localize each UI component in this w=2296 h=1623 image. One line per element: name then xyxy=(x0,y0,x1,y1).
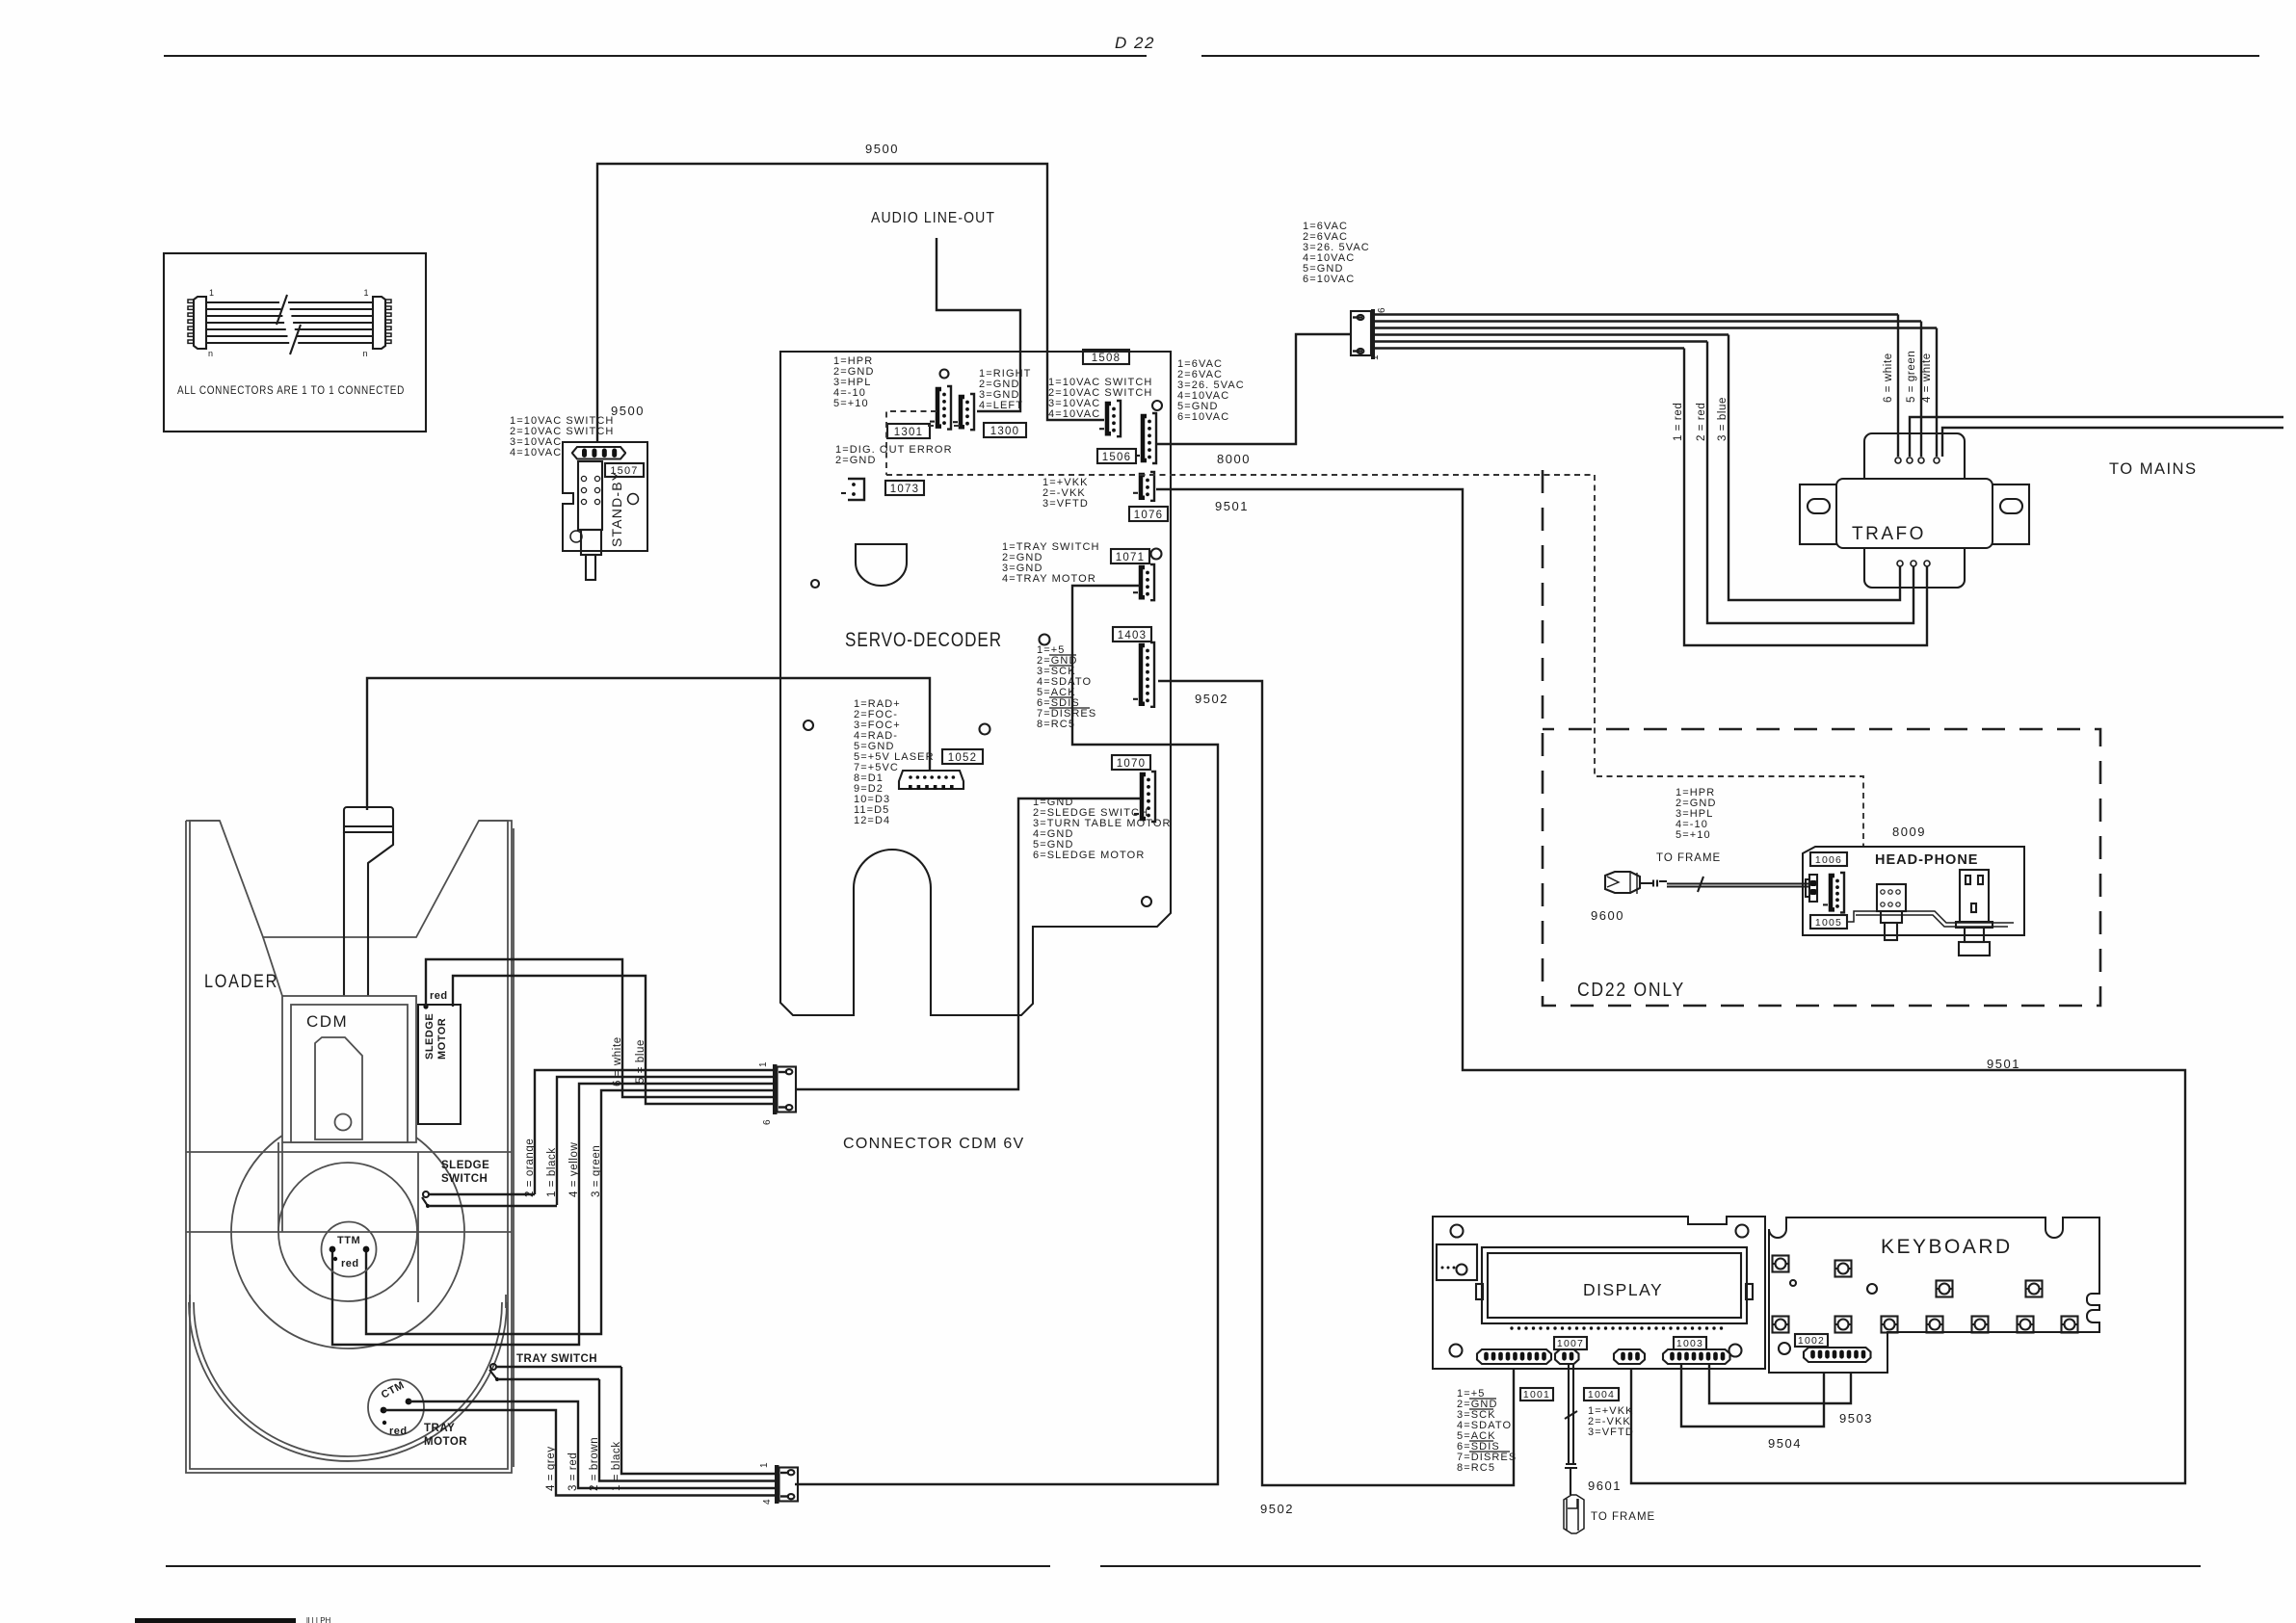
svg-text:9501: 9501 xyxy=(1215,499,1249,513)
wire orange xyxy=(535,1070,775,1194)
svg-text:1: 1 xyxy=(758,1061,769,1067)
trafo mount tab right xyxy=(1989,484,2029,544)
swing circles xyxy=(231,1115,464,1348)
svg-text:9600: 9600 xyxy=(1591,908,1624,923)
wire 9500 (stand-by to servo) xyxy=(597,142,1104,447)
board hole H xyxy=(1142,897,1151,906)
connector 1073 xyxy=(841,479,864,500)
TTM motor xyxy=(322,1222,377,1277)
keyboard buttons row2 xyxy=(1773,1317,2078,1333)
svg-text:TO MAINS: TO MAINS xyxy=(2109,460,2197,478)
sledge switch xyxy=(422,1160,557,1208)
connector 1052 xyxy=(899,771,963,790)
svg-text:KEYBOARD: KEYBOARD xyxy=(1881,1236,2013,1258)
label LOADER xyxy=(204,972,278,992)
board hole E xyxy=(1040,635,1050,645)
svg-text:2 = brown: 2 = brown xyxy=(589,1437,600,1491)
board hole C xyxy=(1151,549,1162,560)
svg-text:9502: 9502 xyxy=(1260,1502,1294,1516)
pin labels 1300 xyxy=(979,368,1031,411)
label 1007 xyxy=(1554,1337,1587,1349)
board HEAD-PHONE xyxy=(1803,847,2024,935)
svg-text:8=RC5: 8=RC5 xyxy=(1037,719,1075,730)
wire tray black xyxy=(621,1367,775,1474)
board hole D xyxy=(811,580,819,588)
svg-text:1 = red: 1 = red xyxy=(1673,403,1684,441)
wire 2 red xyxy=(1696,342,1913,624)
board hole F xyxy=(804,720,813,730)
CTM motor xyxy=(368,1379,424,1437)
display window xyxy=(1476,1247,1753,1323)
svg-text:4=10VAC: 4=10VAC xyxy=(1048,408,1100,420)
wire 1052 flat cable xyxy=(367,678,930,810)
svg-text:3=VFTD: 3=VFTD xyxy=(1042,498,1089,510)
svg-text:1301: 1301 xyxy=(894,427,923,438)
wire black (sledge) xyxy=(557,1077,775,1205)
wires to mains xyxy=(1910,417,2283,478)
svg-text:red: red xyxy=(389,1426,408,1437)
connector trafo 6p xyxy=(1351,307,1387,360)
bottom rule right xyxy=(1100,1565,2201,1567)
pin labels 1004 xyxy=(1588,1405,1634,1438)
svg-text:3=VFTD: 3=VFTD xyxy=(1588,1427,1634,1438)
svg-text:TO FRAME: TO FRAME xyxy=(1656,852,1721,864)
label 2 brown xyxy=(589,1437,600,1491)
svg-text:9500: 9500 xyxy=(865,142,899,156)
svg-text:1004: 1004 xyxy=(1588,1389,1615,1400)
label 1071 xyxy=(1111,549,1149,563)
svg-text:1508: 1508 xyxy=(1092,353,1121,364)
label SERVO-DECODER xyxy=(845,628,1002,651)
note text xyxy=(177,385,405,397)
svg-text:LOADER: LOADER xyxy=(204,972,278,992)
connector 1003 8p xyxy=(1663,1349,1730,1364)
svg-text:CONNECTOR CDM 6V: CONNECTOR CDM 6V xyxy=(843,1136,1025,1152)
wire ctm grey xyxy=(383,1410,775,1496)
svg-text:9504: 9504 xyxy=(1768,1436,1802,1451)
label 1004 xyxy=(1584,1388,1619,1400)
sledge motor xyxy=(418,1005,461,1124)
pin labels 1073 xyxy=(835,444,953,466)
svg-text:1 = black: 1 = black xyxy=(611,1441,622,1491)
wire ctm red xyxy=(409,1401,775,1488)
wire 1506 to trafo connector xyxy=(1157,334,1351,444)
board hole B xyxy=(1152,401,1162,410)
connector 1070 xyxy=(1134,772,1155,822)
svg-text:red: red xyxy=(341,1258,359,1270)
display corner box xyxy=(1437,1244,1477,1280)
wire 9601 ground xyxy=(1564,1364,1655,1533)
label 3 red xyxy=(567,1453,579,1491)
loader outline xyxy=(186,821,514,1473)
label 1301 xyxy=(887,424,930,438)
pin labels 1070 xyxy=(1033,797,1172,861)
svg-text:5=+10: 5=+10 xyxy=(1676,829,1711,841)
wire 6 white xyxy=(1883,315,1898,458)
svg-text:8009: 8009 xyxy=(1892,825,1926,839)
connector CDM 6V xyxy=(758,1061,796,1125)
label 1052 xyxy=(942,749,983,764)
connector 1506 xyxy=(1135,413,1156,463)
svg-text:1: 1 xyxy=(363,288,369,298)
wire tray brown xyxy=(599,1379,775,1481)
CDM block xyxy=(282,996,416,1142)
label 1507 xyxy=(605,463,644,477)
svg-text:1070: 1070 xyxy=(1117,758,1146,770)
wire CDM6V to 1070 xyxy=(796,798,1141,1089)
connector 1071 xyxy=(1133,564,1154,600)
keyboard holes xyxy=(1779,1280,1877,1354)
bottom rule left xyxy=(166,1565,1050,1567)
ribbon cable wires xyxy=(206,295,373,354)
wire audio line-out xyxy=(937,238,1020,411)
svg-text:1506: 1506 xyxy=(1102,452,1131,463)
label 1403 xyxy=(1113,627,1151,641)
svg-text:9500: 9500 xyxy=(611,404,645,418)
label 1001 xyxy=(1520,1388,1553,1400)
svg-text:1: 1 xyxy=(759,1462,770,1468)
svg-text:2 = red: 2 = red xyxy=(1696,403,1707,441)
svg-text:9601: 9601 xyxy=(1588,1479,1622,1493)
top rule right xyxy=(1201,55,2259,57)
svg-text:D 22: D 22 xyxy=(1115,34,1155,52)
svg-text:SLEDGE: SLEDGE xyxy=(441,1160,489,1171)
svg-text:4: 4 xyxy=(762,1499,773,1505)
svg-text:CD22 ONLY: CD22 ONLY xyxy=(1577,980,1685,1001)
display holes xyxy=(1450,1225,1749,1357)
dashed shield 1301/1300 xyxy=(886,411,960,475)
wire 8000 dashed xyxy=(886,452,1863,882)
svg-text:1052: 1052 xyxy=(948,752,977,764)
label 1006 xyxy=(1810,852,1847,866)
svg-text:MOTOR: MOTOR xyxy=(436,1018,448,1060)
svg-text:6: 6 xyxy=(1377,307,1387,313)
label 1 black (tray) xyxy=(611,1441,622,1491)
svg-text:9503: 9503 xyxy=(1839,1411,1873,1426)
svg-text:AUDIO LINE-OUT: AUDIO LINE-OUT xyxy=(871,210,995,226)
frame lug 9600 xyxy=(1591,872,1667,923)
clamp and stem xyxy=(263,807,393,1040)
svg-text:3 = red: 3 = red xyxy=(567,1453,579,1491)
wire 4 white xyxy=(1921,328,1937,458)
svg-text:HEAD-PHONE: HEAD-PHONE xyxy=(1875,852,1978,868)
svg-text:1076: 1076 xyxy=(1134,510,1163,521)
connector 1001 9p xyxy=(1477,1349,1551,1364)
svg-text:1007: 1007 xyxy=(1557,1338,1584,1349)
trafo mount tab left xyxy=(1800,484,1840,544)
connector 1403 xyxy=(1133,642,1154,707)
tray switch xyxy=(489,1353,621,1381)
svg-text:TRAY SWITCH: TRAY SWITCH xyxy=(516,1353,597,1365)
svg-text:SERVO-DECODER: SERVO-DECODER xyxy=(845,628,1002,651)
box CD22 ONLY xyxy=(1543,470,2100,1006)
connector 1300 xyxy=(953,394,974,430)
svg-text:4=LEFT: 4=LEFT xyxy=(979,400,1023,411)
label 1005 xyxy=(1810,915,1847,929)
label 4 grey xyxy=(545,1446,557,1491)
board KEYBOARD xyxy=(1769,1217,2099,1373)
connector 1507 xyxy=(572,447,625,459)
svg-text:6: 6 xyxy=(762,1119,773,1125)
svg-text:1073: 1073 xyxy=(890,484,919,495)
svg-text:STAND-BY: STAND-BY xyxy=(609,471,624,547)
svg-text:1: 1 xyxy=(209,288,215,298)
ribbon connector left xyxy=(188,288,215,358)
keyboard edge step xyxy=(0,0,1,1)
jack contact xyxy=(1806,875,1817,902)
svg-text:4 = yellow: 4 = yellow xyxy=(568,1141,580,1197)
svg-text:1001: 1001 xyxy=(1523,1389,1550,1400)
label 1003 xyxy=(1674,1337,1706,1349)
svg-text:TRAY: TRAY xyxy=(424,1423,455,1434)
label STAND-BY xyxy=(609,471,624,547)
svg-text:TRAFO: TRAFO xyxy=(1852,524,1926,544)
wire yellow xyxy=(332,1084,775,1345)
trafo core xyxy=(1864,433,1965,588)
wire 9501 xyxy=(1156,489,2185,1483)
pin labels 6VAC list left xyxy=(1177,358,1245,423)
svg-text:2=GND: 2=GND xyxy=(835,455,877,466)
pin labels 1052 xyxy=(854,698,935,826)
svg-text:n: n xyxy=(362,349,368,358)
pin labels 1301 xyxy=(833,355,875,409)
svg-text:SWITCH: SWITCH xyxy=(441,1173,488,1185)
svg-text:6=10VAC: 6=10VAC xyxy=(1177,411,1229,423)
label 2 orange xyxy=(524,1139,536,1197)
board hole A xyxy=(940,370,949,379)
connector tray 4p xyxy=(759,1462,798,1505)
svg-text:CDM: CDM xyxy=(306,1012,348,1031)
display dots row xyxy=(1510,1326,1723,1329)
svg-text:6=10VAC: 6=10VAC xyxy=(1303,274,1355,285)
svg-text:TO FRAME: TO FRAME xyxy=(1591,1511,1655,1523)
wire 9503 xyxy=(1709,1362,1873,1426)
pin labels 10VAC switch xyxy=(1048,377,1152,420)
connector 1076 xyxy=(1133,472,1154,501)
svg-text:2 = orange: 2 = orange xyxy=(524,1139,536,1197)
stand-by switch body xyxy=(570,461,639,580)
pin labels 1071 xyxy=(1002,541,1100,585)
CDM inner door xyxy=(315,1037,362,1139)
label 1508 xyxy=(1083,350,1129,364)
label 1002 xyxy=(1795,1334,1828,1347)
trafo bottom pins xyxy=(1897,561,1930,566)
board SERVO-DECODER outline xyxy=(780,352,1171,1015)
page title D 22 xyxy=(1115,34,1155,52)
board STAND-BY xyxy=(563,442,647,551)
svg-text:8000: 8000 xyxy=(1217,452,1251,466)
svg-text:6 = white: 6 = white xyxy=(1883,353,1894,403)
svg-text:1 = black: 1 = black xyxy=(546,1147,558,1197)
svg-text:4 = white: 4 = white xyxy=(1921,353,1933,403)
trafo top pins xyxy=(1895,458,1940,463)
svg-text:5=+10: 5=+10 xyxy=(833,398,869,409)
svg-text:DISPLAY: DISPLAY xyxy=(1583,1280,1663,1299)
wire green xyxy=(366,1090,775,1334)
svg-text:1403: 1403 xyxy=(1118,630,1147,641)
svg-text:1006: 1006 xyxy=(1815,854,1842,866)
svg-text:TTM: TTM xyxy=(337,1235,360,1246)
wire 1071 to tray connector xyxy=(795,586,1218,1484)
headphone jack xyxy=(1956,870,1993,955)
svg-text:MOTOR: MOTOR xyxy=(424,1436,467,1448)
bracket strip xyxy=(1847,911,2014,927)
label 3 green xyxy=(591,1145,602,1197)
wire 5 green xyxy=(1906,322,1921,458)
label 1076 xyxy=(1129,507,1168,521)
connector 10VAC (by 1508) xyxy=(1099,401,1121,436)
wire sledge motor blue xyxy=(453,976,775,1104)
label 1506 xyxy=(1097,449,1136,463)
svg-text:1005: 1005 xyxy=(1815,917,1842,929)
pin labels 1001 xyxy=(1457,1388,1517,1474)
connector 1004 3p xyxy=(1614,1349,1645,1364)
svg-text:SLEDGE: SLEDGE xyxy=(424,1013,435,1060)
wire 1 red xyxy=(1673,349,1927,646)
svg-text:n: n xyxy=(208,349,214,358)
board hole G xyxy=(980,724,990,735)
svg-text:1071: 1071 xyxy=(1116,552,1145,563)
volume pot xyxy=(1877,884,1906,940)
pin labels 1507 xyxy=(510,415,614,458)
svg-text:ll l I PH: ll l I PH xyxy=(306,1616,331,1623)
label 4 yellow xyxy=(568,1141,580,1197)
note box: all connectors 1 to 1 xyxy=(164,253,426,432)
loader divider lines xyxy=(186,1142,512,1302)
svg-text:9502: 9502 xyxy=(1195,692,1228,706)
svg-text:1300: 1300 xyxy=(990,426,1019,437)
pin labels 1076 xyxy=(1042,477,1089,510)
svg-text:1: 1 xyxy=(1370,354,1381,360)
svg-text:3 = blue: 3 = blue xyxy=(1717,397,1729,441)
wire to frame (headphone) xyxy=(1656,852,1809,892)
label 1073 xyxy=(885,481,924,495)
label KEYBOARD xyxy=(1881,1236,2013,1258)
svg-text:4 = grey: 4 = grey xyxy=(545,1446,557,1491)
svg-text:ALL CONNECTORS ARE 1 TO 1 CONN: ALL CONNECTORS ARE 1 TO 1 CONNECTED xyxy=(177,385,405,397)
svg-text:red: red xyxy=(430,990,448,1002)
pin labels 8009 xyxy=(1676,787,1926,841)
svg-text:4=10VAC: 4=10VAC xyxy=(510,447,562,458)
svg-text:6 = white: 6 = white xyxy=(612,1036,623,1086)
trafo body xyxy=(1836,479,1993,548)
svg-text:6=SLEDGE MOTOR: 6=SLEDGE MOTOR xyxy=(1033,850,1145,861)
connector 1007 2p xyxy=(1555,1349,1579,1364)
connector 1301 xyxy=(930,386,951,430)
dome cutout xyxy=(856,544,907,586)
audio line-out label xyxy=(871,210,995,226)
sledge motor red terminal xyxy=(423,990,447,1009)
svg-text:4=TRAY MOTOR: 4=TRAY MOTOR xyxy=(1002,573,1096,585)
label 1 black xyxy=(546,1147,558,1197)
label 6 white xyxy=(612,1036,623,1086)
svg-text:1002: 1002 xyxy=(1798,1335,1825,1347)
svg-text:8=RC5: 8=RC5 xyxy=(1457,1462,1495,1474)
label CONNECTOR CDM 6V xyxy=(843,1136,1025,1152)
svg-text:3 = green: 3 = green xyxy=(591,1145,602,1197)
board DISPLAY xyxy=(1433,1217,1765,1369)
wire 9502 xyxy=(1158,681,1514,1516)
svg-text:12=D4: 12=D4 xyxy=(854,815,890,826)
trafo wire bundle xyxy=(1375,315,1937,349)
wire 9504 xyxy=(1681,1362,1824,1451)
pin labels 1403 xyxy=(1037,644,1096,730)
svg-text:1003: 1003 xyxy=(1676,1338,1703,1349)
svg-text:5 = green: 5 = green xyxy=(1906,351,1917,403)
pin labels 6VAC list top xyxy=(1303,221,1370,285)
connector 1002 8p xyxy=(1804,1348,1871,1362)
label 5 blue xyxy=(635,1039,647,1084)
label 1070 xyxy=(1112,755,1150,770)
svg-text:9501: 9501 xyxy=(1987,1057,2020,1071)
keyboard buttons row1 xyxy=(1773,1256,2043,1297)
top rule left xyxy=(164,55,1147,57)
wire 3 blue xyxy=(1717,335,1900,601)
ribbon connector right xyxy=(362,288,391,358)
connector 1005/1006 5p xyxy=(1823,873,1844,912)
tray arc xyxy=(189,1295,507,1461)
wire sledge motor white xyxy=(426,959,775,1097)
label tray motor xyxy=(424,1423,467,1448)
scan artifact bottom-left xyxy=(135,1616,331,1623)
label 1300 xyxy=(984,423,1026,437)
